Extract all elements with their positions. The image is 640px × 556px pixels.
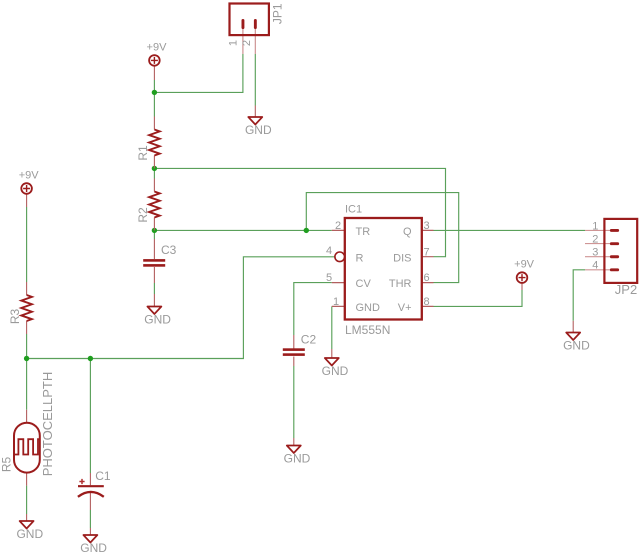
ground GND (C1) xyxy=(80,528,107,555)
svg-text:6: 6 xyxy=(423,272,429,284)
svg-text:C2: C2 xyxy=(301,333,317,347)
wire net V+ top: junction to JP1 pin 1 xyxy=(154,54,243,92)
wire R3 net from +9V xyxy=(26,207,28,282)
wire TR row: R2 bottom to IC pin 2 xyxy=(154,229,331,231)
svg-text:1: 1 xyxy=(592,220,598,232)
svg-text:JP1: JP1 xyxy=(271,3,285,24)
svg-text:CV: CV xyxy=(356,278,372,290)
connector JP1 xyxy=(228,3,285,54)
ground GND (C3) xyxy=(144,294,171,326)
junction node dots xyxy=(24,90,309,361)
wire R5 top segment xyxy=(26,359,28,410)
svg-text:DIS: DIS xyxy=(393,252,411,264)
svg-text:PHOTOCELLPTH: PHOTOCELLPTH xyxy=(40,372,55,477)
resistor R1 xyxy=(136,117,160,169)
ground GND (JP1 pin2) xyxy=(245,106,272,138)
wire C1 bottom to GND xyxy=(89,510,91,528)
svg-text:2: 2 xyxy=(335,220,341,232)
svg-text:GND: GND xyxy=(245,123,272,137)
svg-text:2: 2 xyxy=(592,234,598,246)
wire main horizontal node to reset pin 4 xyxy=(27,257,335,359)
wire R3 bottom to main node xyxy=(26,334,28,359)
svg-text:R3: R3 xyxy=(8,309,22,325)
pin 4 inversion bubble xyxy=(335,252,345,262)
ground GND (C2) xyxy=(284,438,311,465)
svg-text:GND: GND xyxy=(322,364,349,378)
svg-text:+9V: +9V xyxy=(147,41,168,53)
wire V+ pin 8 to +9V xyxy=(434,290,523,306)
supply +9V symbol (left, for R3) xyxy=(19,169,40,207)
capacitor C3 xyxy=(143,239,176,283)
svg-text:GND: GND xyxy=(284,451,311,465)
wire C3 bottom to GND xyxy=(153,283,155,294)
svg-text:+9V: +9V xyxy=(19,169,40,181)
supply +9V symbol (right, for V+) xyxy=(514,259,535,291)
wire CV pin 5 to C2 xyxy=(294,283,332,335)
svg-text:1: 1 xyxy=(333,296,339,308)
ground GND (IC1 pin1) xyxy=(322,349,349,378)
wire JP2 pin 4 to GND xyxy=(573,270,585,321)
svg-text:7: 7 xyxy=(423,246,429,258)
ground GND (R5) xyxy=(16,514,43,541)
svg-text:IC1: IC1 xyxy=(345,204,362,216)
wire R5 bottom to GND xyxy=(26,486,28,514)
supply +9V symbol (top, for R1/JP1) xyxy=(147,41,168,80)
photocell R5 xyxy=(0,372,55,486)
svg-text:5: 5 xyxy=(326,272,332,284)
svg-text:Q: Q xyxy=(403,226,412,238)
svg-text:C1: C1 xyxy=(95,469,111,483)
wire R1 top segment xyxy=(153,92,155,116)
wire JP1 pin2 to GND xyxy=(254,54,256,106)
wire TR to THR loop xyxy=(306,193,458,283)
svg-text:GND: GND xyxy=(80,541,107,555)
wire Q pin 3 to JP2 pin 1 xyxy=(434,229,586,231)
svg-text:C3: C3 xyxy=(161,243,177,257)
svg-text:3: 3 xyxy=(423,220,429,232)
svg-text:1: 1 xyxy=(228,40,240,46)
svg-text:R2: R2 xyxy=(136,207,150,223)
svg-text:2: 2 xyxy=(241,40,253,46)
op IC1 LM555N body xyxy=(326,204,434,338)
svg-text:3: 3 xyxy=(592,247,598,259)
svg-text:V+: V+ xyxy=(398,302,412,314)
svg-text:4: 4 xyxy=(326,245,332,257)
svg-text:+9V: +9V xyxy=(514,259,535,271)
wire IC pin 1 to GND xyxy=(331,306,333,349)
svg-text:4: 4 xyxy=(592,260,598,272)
capacitor C1 (polarized) xyxy=(78,469,111,510)
svg-text:R: R xyxy=(356,252,364,264)
svg-text:GND: GND xyxy=(16,527,43,541)
svg-text:LM555N: LM555N xyxy=(345,323,390,337)
wire R2 top segment xyxy=(153,168,155,178)
wire C3 top segment xyxy=(153,230,155,239)
svg-text:R1: R1 xyxy=(136,145,150,161)
wire C2 bottom to GND xyxy=(293,366,295,438)
resistor R3 xyxy=(8,282,32,334)
ground GND (JP2 pin4) xyxy=(563,321,590,353)
svg-text:8: 8 xyxy=(423,296,429,308)
resistor R2 xyxy=(136,179,160,231)
svg-text:JP2: JP2 xyxy=(615,282,637,297)
svg-text:GND: GND xyxy=(144,312,171,326)
svg-text:R5: R5 xyxy=(0,457,13,473)
wire R1/R2 junction to DIS pin 7 xyxy=(154,168,445,256)
wire C1 top segment xyxy=(89,359,91,474)
connector JP2 xyxy=(585,219,637,297)
svg-text:THR: THR xyxy=(389,278,412,290)
svg-text:TR: TR xyxy=(356,226,371,238)
svg-text:GND: GND xyxy=(356,302,381,314)
svg-text:GND: GND xyxy=(563,338,590,352)
capacitor C2 xyxy=(283,333,317,367)
